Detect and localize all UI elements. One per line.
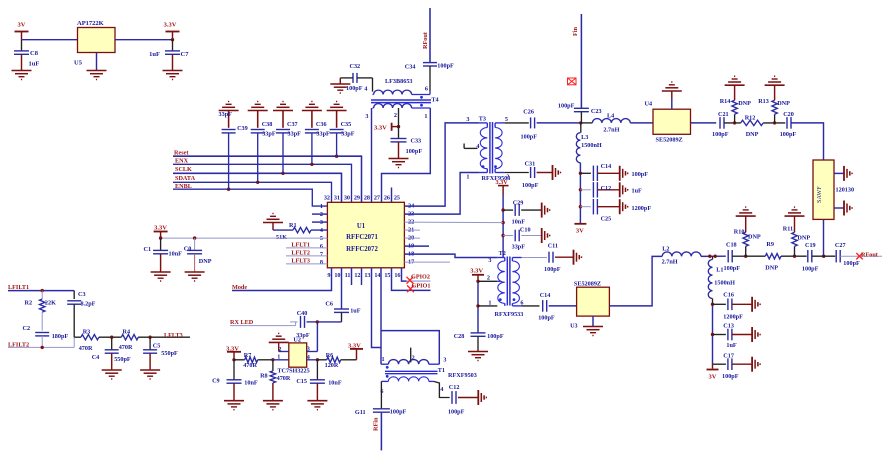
svg-text:1uF: 1uF bbox=[149, 51, 160, 58]
svg-text:DNP: DNP bbox=[765, 264, 778, 271]
wire 3.3V column to C28 bbox=[476, 280, 479, 333]
svg-text:100pF: 100pF bbox=[712, 131, 729, 138]
wire SAWF output bbox=[822, 219, 825, 258]
svg-text:470R: 470R bbox=[79, 345, 93, 352]
transformer T3 RFXF9503 bbox=[466, 116, 510, 183]
net GPIO2 at pin 16 bbox=[402, 268, 431, 284]
ground right of C29 bbox=[542, 203, 550, 218]
svg-text:10: 10 bbox=[334, 272, 340, 279]
inductor L2 2.7nH bbox=[662, 245, 701, 265]
power 3.3V for pin 5 bbox=[154, 225, 168, 239]
ground above U2 pin 2 bbox=[269, 333, 289, 353]
ground below R8 bbox=[263, 401, 283, 410]
svg-text:LFLT3: LFLT3 bbox=[164, 332, 183, 339]
svg-text:100pF: 100pF bbox=[448, 409, 465, 416]
svg-text:C37: C37 bbox=[287, 121, 298, 128]
svg-text:C14: C14 bbox=[540, 292, 551, 299]
svg-text:L3: L3 bbox=[581, 134, 588, 141]
IC U2 TC7SH3225 bbox=[277, 336, 309, 374]
net RFout right bbox=[840, 252, 882, 260]
svg-text:R10: R10 bbox=[734, 228, 745, 235]
svg-text:SDATA: SDATA bbox=[175, 175, 196, 182]
svg-text:100pF: 100pF bbox=[843, 260, 860, 267]
U2 pin 3 wire bbox=[307, 322, 318, 353]
power 3.3V below T3 bbox=[496, 179, 509, 195]
svg-text:100pF: 100pF bbox=[558, 103, 575, 110]
svg-text:C12: C12 bbox=[601, 185, 612, 192]
regulator U5 AP1722K bbox=[74, 20, 115, 67]
ground below C33 bbox=[389, 159, 409, 168]
svg-text:1uF: 1uF bbox=[632, 187, 643, 194]
svg-text:10nF: 10nF bbox=[244, 380, 258, 387]
capacitor C29 10nF bbox=[503, 199, 542, 225]
svg-text:11: 11 bbox=[345, 272, 351, 279]
power 3.3V at T2 bbox=[470, 268, 484, 282]
svg-text:C6: C6 bbox=[325, 301, 333, 308]
svg-text:C31: C31 bbox=[525, 160, 536, 167]
wire U1 pin 19 stub bbox=[404, 245, 429, 247]
U2 pin 1 wire bbox=[273, 354, 289, 361]
svg-text:100pF: 100pF bbox=[544, 266, 561, 273]
wire 3V column bbox=[501, 195, 504, 258]
svg-text:RX LED: RX LED bbox=[230, 319, 254, 326]
svg-text:R1: R1 bbox=[289, 222, 297, 229]
net label LFLT1 at pin 6 bbox=[286, 241, 327, 248]
inductor L4 2.7nH bbox=[581, 112, 630, 133]
svg-text:13: 13 bbox=[364, 272, 370, 279]
ground below C8 bbox=[12, 71, 32, 80]
capacitor C15 10nF bbox=[296, 360, 341, 400]
ground above C37 bbox=[273, 102, 293, 111]
svg-text:R7: R7 bbox=[244, 352, 252, 359]
capacitor C4 550pF bbox=[92, 337, 131, 369]
svg-text:470R: 470R bbox=[119, 344, 133, 351]
svg-text:100pF: 100pF bbox=[802, 266, 819, 273]
ground above R14 bbox=[725, 76, 745, 85]
svg-text:C38: C38 bbox=[262, 121, 273, 128]
IC U1 RFFC2071 bbox=[327, 202, 404, 267]
resistor R9 DNP bbox=[746, 241, 781, 271]
svg-text:100pF: 100pF bbox=[522, 182, 539, 189]
svg-text:C0: C0 bbox=[184, 245, 192, 252]
svg-text:550pF: 550pF bbox=[161, 350, 178, 357]
capacitor C0 DNP bbox=[184, 238, 212, 271]
capacitor C10 33pF bbox=[503, 226, 542, 250]
svg-text:2.7nH: 2.7nH bbox=[662, 259, 678, 266]
T3 pin 4 stub bbox=[464, 143, 479, 150]
svg-text:R2: R2 bbox=[25, 300, 33, 307]
svg-text:L1: L1 bbox=[716, 267, 723, 274]
ground right of C12 bbox=[478, 390, 486, 405]
svg-text:SE52089Z: SE52089Z bbox=[574, 280, 601, 287]
svg-text:8.2pF: 8.2pF bbox=[81, 300, 96, 307]
svg-text:C11: C11 bbox=[548, 243, 558, 250]
svg-text:100pF: 100pF bbox=[487, 333, 504, 340]
resistor R3 470R bbox=[79, 329, 99, 352]
ground above R13 bbox=[765, 76, 785, 85]
svg-text:DNP: DNP bbox=[797, 234, 810, 241]
ground below C0 bbox=[185, 272, 205, 281]
capacitor C20 100pF bbox=[780, 111, 797, 138]
svg-text:1: 1 bbox=[424, 113, 427, 120]
net label ENBL bbox=[173, 183, 327, 206]
svg-text:100pF: 100pF bbox=[632, 171, 649, 178]
svg-text:1: 1 bbox=[277, 354, 280, 361]
wire C20 to SAWF bbox=[791, 123, 824, 160]
capacitor C14b 100pF bypass bbox=[580, 163, 648, 181]
svg-text:DNP: DNP bbox=[746, 131, 759, 138]
svg-text:C40: C40 bbox=[297, 310, 308, 317]
svg-text:1500nH: 1500nH bbox=[581, 142, 602, 149]
svg-text:3V: 3V bbox=[576, 228, 584, 235]
T2 pin 1 stub bbox=[478, 305, 497, 307]
ground above C35 bbox=[327, 102, 347, 111]
svg-text:2: 2 bbox=[394, 112, 397, 119]
net RFin bbox=[373, 417, 380, 431]
capacitor C27 100pF bbox=[835, 242, 860, 267]
svg-text:L2: L2 bbox=[662, 245, 669, 252]
svg-text:C19: C19 bbox=[805, 242, 816, 249]
ground right of C16 bbox=[752, 297, 760, 312]
svg-text:C13: C13 bbox=[723, 322, 734, 329]
svg-text:C20: C20 bbox=[783, 111, 794, 118]
svg-text:100pF: 100pF bbox=[538, 315, 555, 322]
svg-text:C29: C29 bbox=[513, 199, 524, 206]
ground below C15 bbox=[307, 401, 327, 410]
svg-text:6: 6 bbox=[425, 86, 428, 93]
svg-text:C23: C23 bbox=[591, 108, 602, 115]
ground right of C31 bbox=[553, 165, 561, 180]
capacitor C18 100pF bbox=[724, 242, 748, 273]
resistor R2 22K bbox=[25, 289, 57, 331]
wire U1 pin 20 stub bbox=[404, 237, 420, 239]
svg-text:C39: C39 bbox=[237, 125, 248, 132]
svg-text:RFout: RFout bbox=[861, 252, 879, 259]
svg-text:R14: R14 bbox=[720, 98, 731, 105]
svg-text:31: 31 bbox=[334, 195, 340, 202]
capacitor C26 100pF bbox=[504, 108, 581, 140]
svg-text:3.3V: 3.3V bbox=[164, 22, 177, 29]
SAWF ground stub 2 bbox=[834, 201, 852, 216]
wire R3 to R4 bbox=[99, 336, 121, 339]
T2 pin 2 stub bbox=[478, 280, 497, 282]
power 3V at column bottom bbox=[707, 364, 719, 380]
ground above C36 bbox=[302, 102, 322, 111]
ground below U3 bbox=[583, 316, 603, 335]
capacitor C34 100pF bbox=[405, 63, 454, 92]
svg-text:3: 3 bbox=[307, 346, 310, 353]
resistor R8 470R bbox=[260, 360, 291, 400]
U1 pin 11 stub bbox=[351, 268, 353, 285]
svg-text:1200pF: 1200pF bbox=[632, 205, 652, 212]
svg-text:G11: G11 bbox=[355, 409, 366, 416]
ground below C1 bbox=[151, 272, 171, 281]
net label Mode at U1 pin 9 bbox=[232, 268, 332, 291]
svg-text:27: 27 bbox=[374, 195, 380, 202]
svg-text:3: 3 bbox=[488, 257, 491, 264]
svg-text:AP1722K: AP1722K bbox=[77, 20, 104, 27]
SAWF ground stub 1 bbox=[834, 166, 852, 181]
svg-text:33pF: 33pF bbox=[512, 244, 526, 251]
capacitor C12b 1uF bypass bbox=[580, 182, 642, 197]
svg-text:SCLK: SCLK bbox=[175, 166, 192, 173]
ground below C4 bbox=[102, 370, 122, 379]
wire T1 pin 3 riser bbox=[381, 331, 439, 365]
wire U1 pin 21 stub bbox=[404, 229, 420, 231]
svg-text:1500nH: 1500nH bbox=[714, 279, 735, 286]
capacitor C5 550pF bbox=[143, 337, 178, 369]
svg-text:C35: C35 bbox=[341, 121, 352, 128]
wire C40 node to C6 bbox=[317, 321, 341, 323]
capacitor C40 33pF bbox=[290, 310, 319, 339]
svg-text:5: 5 bbox=[505, 116, 508, 123]
svg-text:C9: C9 bbox=[212, 378, 220, 385]
svg-text:RFXF9503: RFXF9503 bbox=[448, 372, 477, 379]
svg-text:1: 1 bbox=[466, 174, 469, 181]
svg-text:7: 7 bbox=[320, 251, 323, 258]
ground right of C13 bbox=[752, 327, 760, 342]
capacitor C16 1200pF bbox=[713, 291, 753, 320]
svg-text:3.3V: 3.3V bbox=[374, 125, 387, 132]
capacitor C38 33pF bbox=[251, 111, 276, 183]
net label LFLT2 at pin 7 bbox=[286, 249, 327, 256]
U1 pin 26 stub bbox=[391, 188, 393, 203]
svg-text:R13: R13 bbox=[758, 98, 769, 105]
svg-text:3: 3 bbox=[365, 113, 368, 120]
svg-text:1uF: 1uF bbox=[350, 308, 361, 315]
svg-text:100pF: 100pF bbox=[437, 63, 454, 70]
svg-text:10nF: 10nF bbox=[512, 219, 526, 226]
U1 right pin numbers 24-17 bbox=[408, 202, 414, 265]
wire L2 to C18 bbox=[701, 255, 726, 258]
svg-text:C16: C16 bbox=[723, 291, 734, 298]
wire LFILT1 down to C3 bbox=[73, 291, 75, 299]
svg-text:C26: C26 bbox=[523, 108, 534, 115]
power 3.3V at T4 center tap bbox=[374, 123, 400, 132]
svg-text:RFout: RFout bbox=[422, 31, 429, 49]
capacitor C2 180pF bbox=[23, 325, 69, 347]
capacitor C39 33pF bbox=[219, 111, 248, 190]
power 3.3V output bbox=[164, 22, 180, 42]
svg-text:470R: 470R bbox=[243, 362, 257, 369]
svg-text:U5: U5 bbox=[74, 60, 83, 67]
svg-text:15: 15 bbox=[384, 272, 390, 279]
capacitor C9 10nF bbox=[212, 360, 258, 400]
wire LFLT3 row bbox=[74, 336, 81, 338]
svg-text:U4: U4 bbox=[645, 100, 653, 107]
svg-text:2.7nH: 2.7nH bbox=[603, 126, 619, 133]
svg-text:LF3B8653: LF3B8653 bbox=[385, 78, 413, 85]
capacitor C6 1uF bbox=[325, 268, 360, 322]
wire U1 pin 22 to 3V column bbox=[404, 221, 503, 224]
capacitor C13 1uF bbox=[713, 322, 753, 349]
T1 pin 2 stub bbox=[410, 348, 412, 363]
capacitor C11 100pF bbox=[522, 243, 574, 273]
svg-text:33pF: 33pF bbox=[288, 131, 302, 138]
svg-text:3: 3 bbox=[466, 116, 469, 123]
svg-text:3: 3 bbox=[443, 357, 446, 364]
capacitor C35 33pF bbox=[330, 111, 355, 157]
svg-text:R8: R8 bbox=[260, 373, 268, 380]
svg-text:C8: C8 bbox=[30, 50, 39, 57]
capacitor C8 bbox=[14, 40, 39, 70]
ground below U5 bbox=[87, 53, 107, 80]
wire U5 output to 3.3V bbox=[115, 39, 173, 41]
svg-text:100pF: 100pF bbox=[724, 265, 741, 272]
svg-text:51K: 51K bbox=[276, 234, 287, 241]
svg-text:100pF: 100pF bbox=[722, 373, 739, 380]
svg-text:C10: C10 bbox=[520, 226, 531, 233]
svg-text:100pF: 100pF bbox=[346, 85, 363, 92]
capacitor C25 1200pF bypass bbox=[580, 199, 651, 223]
U1 bottom pin numbers 9-16 bbox=[327, 272, 400, 279]
wire U1 pin 14 to T1 pin 1 bbox=[380, 268, 382, 364]
wire R4 to LFLT3 bbox=[138, 336, 190, 339]
net label Reset bbox=[173, 150, 362, 203]
U2 pin 4 wire bbox=[307, 354, 319, 362]
svg-text:33pF: 33pF bbox=[219, 111, 233, 118]
svg-text:8: 8 bbox=[320, 259, 323, 266]
svg-text:C18: C18 bbox=[726, 242, 737, 249]
svg-text:R6: R6 bbox=[326, 352, 334, 359]
svg-text:180pF: 180pF bbox=[52, 333, 69, 340]
wire U4 output bbox=[691, 122, 717, 124]
svg-text:30: 30 bbox=[344, 195, 350, 202]
svg-text:U1: U1 bbox=[357, 223, 366, 230]
net label ENX bbox=[173, 158, 352, 203]
svg-text:RFFC2072: RFFC2072 bbox=[346, 246, 378, 253]
net label SCLK bbox=[173, 166, 342, 202]
wire 3.3V to U1 pin 5 bbox=[159, 236, 327, 239]
svg-text:1: 1 bbox=[488, 300, 491, 307]
U1 top pin numbers 32-25 bbox=[324, 195, 400, 202]
ground above C39 bbox=[219, 102, 239, 111]
U1 pin 3 stub bbox=[312, 221, 327, 223]
svg-text:C36: C36 bbox=[316, 121, 327, 128]
ground above C38 bbox=[248, 102, 268, 111]
svg-text:C7: C7 bbox=[181, 51, 190, 58]
svg-text:16: 16 bbox=[394, 272, 400, 279]
inductor L1 1500nH bbox=[708, 256, 735, 304]
capacitor C33 100pF bbox=[391, 108, 423, 158]
svg-text:10nF: 10nF bbox=[169, 251, 183, 258]
svg-text:RFFC2071: RFFC2071 bbox=[346, 234, 378, 241]
X mark on Fin line bbox=[568, 78, 577, 85]
svg-text:2: 2 bbox=[278, 346, 281, 353]
resistor R7 470R bbox=[234, 352, 275, 369]
svg-text:RFin: RFin bbox=[373, 417, 380, 431]
svg-text:C17: C17 bbox=[723, 353, 734, 360]
capacitor C12 100pF bbox=[434, 381, 479, 415]
resistor R11 DNP bbox=[783, 216, 811, 256]
svg-text:4: 4 bbox=[307, 354, 310, 361]
svg-text:GPIO1: GPIO1 bbox=[412, 283, 431, 290]
ground below C32 bbox=[330, 84, 350, 93]
svg-text:C4: C4 bbox=[92, 354, 100, 361]
U1 pin 2 stub bbox=[312, 213, 327, 215]
capacitor C23 100pF bbox=[558, 103, 602, 125]
wire U1 pin 13 to T1 bbox=[372, 268, 382, 348]
wire L1 bottom column bbox=[711, 303, 714, 365]
net label LFILT2 bbox=[8, 337, 74, 349]
ground below C9 bbox=[224, 401, 244, 410]
svg-text:120130: 120130 bbox=[836, 187, 855, 194]
svg-text:12: 12 bbox=[354, 272, 360, 279]
resistor R6 120R bbox=[317, 352, 356, 369]
wire 5V to U5 input bbox=[22, 39, 78, 41]
svg-text:10nF: 10nF bbox=[328, 380, 342, 387]
svg-text:33pF: 33pF bbox=[262, 131, 276, 138]
ground below C5 bbox=[140, 370, 160, 379]
wire L3 to bypass column bbox=[579, 163, 582, 223]
net GPIO1 at pin 15 bbox=[392, 268, 431, 292]
svg-text:C2: C2 bbox=[23, 325, 31, 332]
svg-text:4: 4 bbox=[440, 386, 443, 393]
svg-text:C12: C12 bbox=[449, 384, 460, 391]
IC U4 SE52089Z bbox=[645, 100, 691, 143]
transformer T4 LF3B8653 bbox=[364, 78, 438, 120]
svg-text:C34: C34 bbox=[405, 64, 416, 71]
U1 left pin numbers 1-8 bbox=[320, 203, 323, 266]
svg-text:33pF: 33pF bbox=[316, 131, 330, 138]
resistor R12 DNP bbox=[741, 115, 764, 138]
svg-text:3V: 3V bbox=[18, 22, 26, 29]
wire T4 pin3 to U1 pin 28 bbox=[371, 108, 373, 202]
ground right of C10 bbox=[542, 228, 550, 243]
capacitor C3 8.2pF bbox=[67, 291, 95, 337]
svg-text:1: 1 bbox=[320, 203, 323, 210]
net label LFLT3 output bbox=[164, 332, 183, 339]
svg-text:T4: T4 bbox=[431, 97, 438, 104]
svg-text:29: 29 bbox=[354, 195, 360, 202]
svg-text:R12: R12 bbox=[745, 115, 756, 122]
svg-text:SAWF: SAWF bbox=[816, 186, 823, 203]
wire C19 to C27 bbox=[812, 255, 835, 257]
capacitor C36 33pF bbox=[305, 111, 330, 165]
IC SAWF 120130 bbox=[813, 160, 854, 219]
net Fin input bbox=[572, 14, 581, 108]
svg-text:GPIO2: GPIO2 bbox=[411, 274, 430, 281]
svg-text:120R: 120R bbox=[325, 362, 339, 369]
capacitor C19 100pF bbox=[802, 242, 819, 273]
capacitor C37 33pF bbox=[276, 111, 301, 174]
svg-text:1uF: 1uF bbox=[29, 61, 40, 68]
svg-text:LFLT3: LFLT3 bbox=[291, 257, 310, 264]
svg-text:32: 32 bbox=[324, 195, 330, 202]
resistor R10 DNP bbox=[734, 216, 761, 256]
svg-text:R3: R3 bbox=[83, 329, 91, 336]
svg-text:28: 28 bbox=[364, 195, 370, 202]
svg-text:1uF: 1uF bbox=[726, 342, 737, 349]
svg-text:22K: 22K bbox=[45, 300, 56, 307]
wire T4 pin1 to U1 pin 27 bbox=[382, 108, 431, 202]
capacitor C21 100pF bbox=[712, 111, 741, 138]
svg-text:C28: C28 bbox=[454, 333, 465, 340]
svg-text:U3: U3 bbox=[570, 323, 578, 330]
ground right of C17 bbox=[752, 357, 760, 372]
svg-text:C32: C32 bbox=[350, 63, 361, 70]
svg-text:RFXF9533: RFXF9533 bbox=[495, 311, 524, 318]
svg-text:C15: C15 bbox=[296, 378, 307, 385]
svg-text:550pF: 550pF bbox=[114, 356, 131, 363]
svg-text:C27: C27 bbox=[835, 242, 846, 249]
svg-text:100pF: 100pF bbox=[406, 148, 423, 155]
wire U1 pin 24 to T3 pin 3 bbox=[404, 123, 478, 206]
junction dots on bus lines bbox=[227, 155, 338, 191]
ground right of C14b bbox=[620, 166, 628, 181]
capacitor C14 100pF bbox=[522, 292, 577, 322]
svg-text:3V: 3V bbox=[709, 373, 717, 380]
